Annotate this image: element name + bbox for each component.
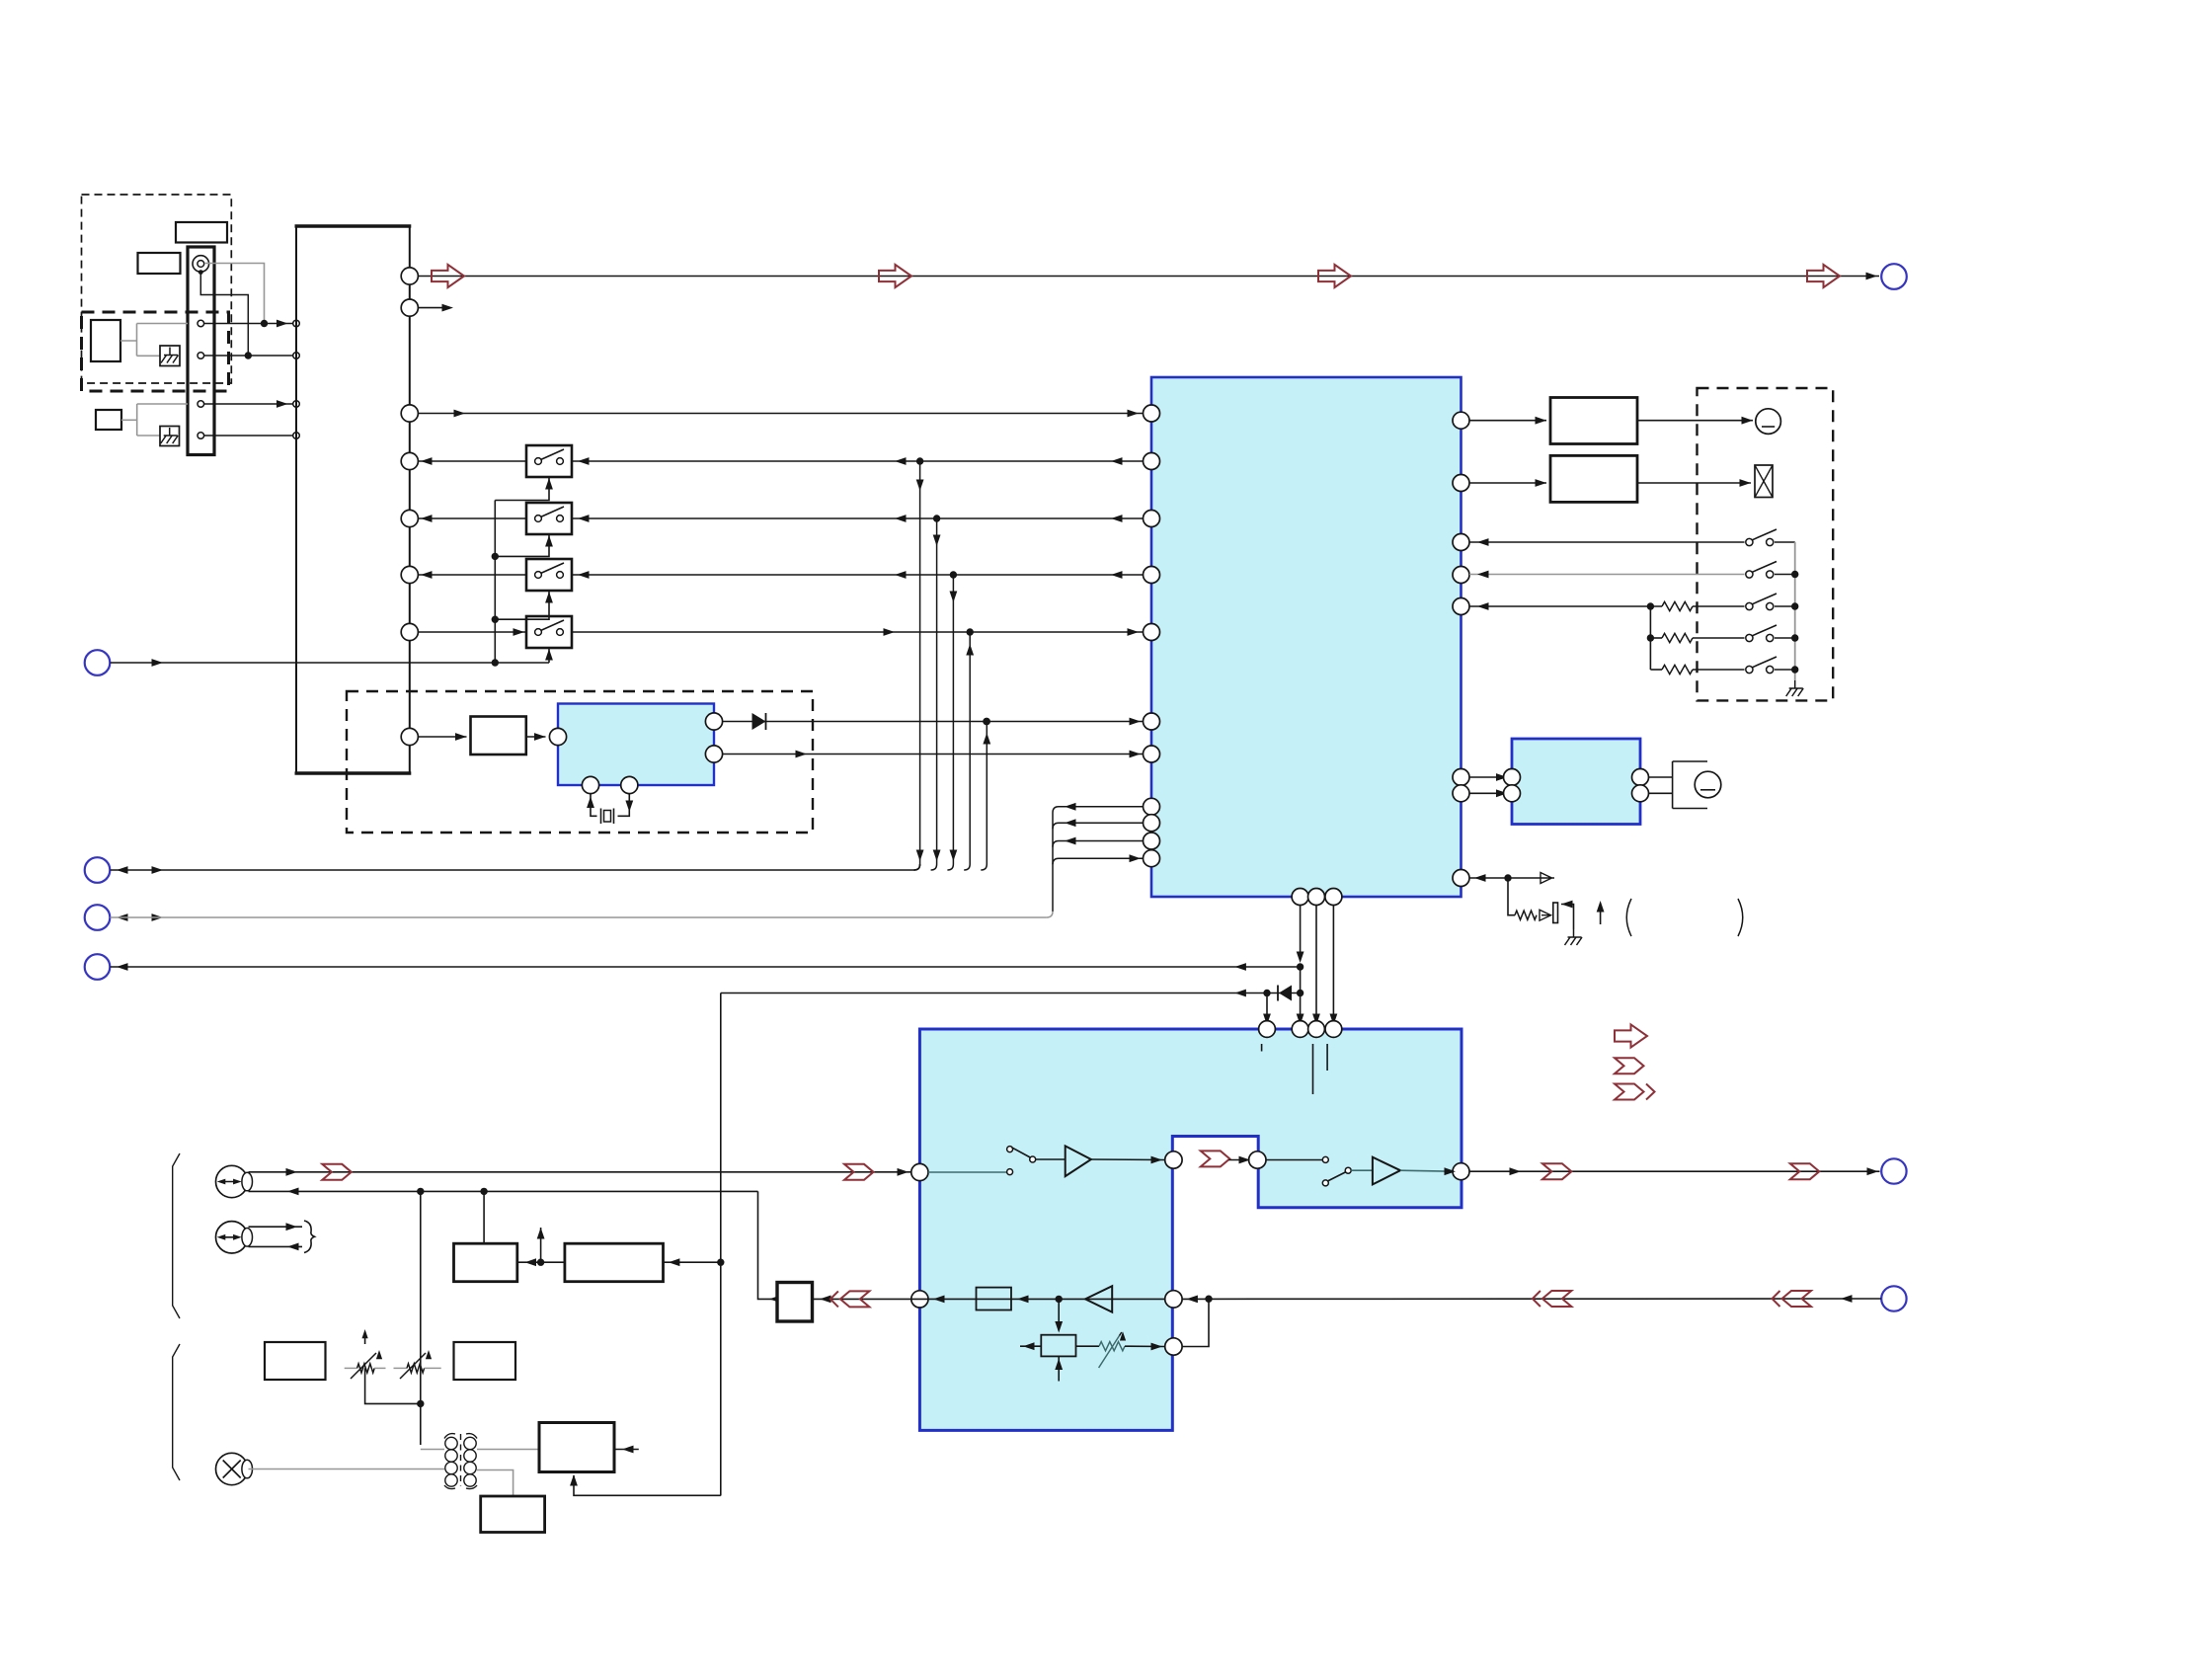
amp A1 (play amp) [1036,1158,1066,1160]
wire: H2 to H3 with tap [517,1261,565,1263]
U3 top pin T1 [1259,1021,1276,1038]
switch SW4 [526,616,572,648]
brace annotation [304,1221,315,1253]
RCA antenna jack J0 [193,256,209,273]
U3 pin rec in [1165,1291,1182,1308]
switch SW3 [526,559,572,591]
key switch S4 [1746,634,1753,641]
wire: J8 in row from relay J-box [249,1190,758,1192]
wire: J8 out row to U3 [249,1171,911,1173]
panel pin P1 [197,320,204,327]
wire: U2 out2 to IC [723,754,1144,755]
mode block H4 [265,1342,326,1380]
wire: row B3 to IC pin [418,413,1143,415]
T1 secondary top lead [477,1449,539,1451]
row S5 with resistor R3 [1650,669,1662,671]
amp A2 [1351,1169,1373,1171]
right parenthesis annotation [1738,899,1743,936]
trimmer branch with resistor R4 [1508,878,1515,915]
I2 bottom stub [1058,1356,1060,1381]
wire: U2 out1 through diode D2 to IC [723,721,1144,723]
connector J9 (mic) [216,1222,248,1253]
variable resistor VR1 [345,1367,357,1369]
connector J6 [1881,1158,1906,1183]
bus branch arrows [916,480,924,492]
bus wire from J3 with branch verticals [117,866,128,874]
main bottom vertical from J8 row [420,1191,422,1445]
driver block E1 [1550,398,1637,444]
wire: J9 rows to brace [249,1226,303,1228]
panel pin P3 [197,401,204,408]
red arrow A3 [1318,265,1351,287]
connector J10 lamp [216,1453,248,1484]
U2 pin out2 [705,746,722,762]
wire: U1 to driver E1 [1469,420,1546,422]
U1 left pins [1144,405,1160,422]
oscillator IC U2 [558,704,714,786]
SW-BLK pin B8 [401,728,418,745]
wire: U1 to S3 with resistor R1 [1469,605,1662,607]
U3 pin rec aux [1165,1338,1182,1355]
wire: row B7 through switch SW4 to IC [418,631,526,633]
red double chevron into J [840,1291,870,1307]
bias branch [1058,1299,1060,1330]
vertical feed to bottom block pin T1 [1266,993,1268,1021]
ground symbol in G1 [161,348,179,363]
function switch block SW-BLK [296,226,410,773]
red arrow A1 [432,265,464,287]
wire: panel P4 to switch block [204,435,293,437]
key switch S3 [1746,602,1753,609]
U3 pin out notch L [1165,1152,1182,1168]
U3 internal stubs [1261,1044,1263,1052]
SW-BLK pin B3 [401,405,418,422]
U1 right pins [1453,412,1469,429]
U2 pin out1 [705,713,722,730]
bus branch vertical x=982.2 [964,864,970,870]
U3 pin in2 L [911,1291,928,1308]
panel pin P4 [197,433,204,439]
power net row with diode D3 [721,993,1301,994]
SW-BLK pin B4 [401,452,418,469]
cluster wires into IC pins [1053,807,1059,813]
wire: E2 to beeper [1637,482,1751,484]
SW-BLK pin B2 [401,299,418,316]
long feed vertical to output stage [720,993,722,1496]
panel pin P2 [197,353,204,359]
wire: U1 to S1 [1469,541,1745,543]
block FM antenna lower [96,410,121,430]
arrowhead into J1 [1866,273,1878,280]
variable resistor VR2 [394,1367,408,1369]
branch to aux pin [1182,1299,1209,1346]
diode D3 [1279,986,1292,1001]
left parenthesis annotation [1626,899,1631,936]
switch SW2 [526,503,572,534]
battery bracket [1649,776,1673,778]
up arrow annotation [1600,905,1602,924]
wire amp A1 to notch pin [1091,1158,1165,1161]
connector J5 [85,954,111,980]
wire: row B5 from IC through switch SW2 [418,517,526,519]
H1 right stub [614,1449,639,1451]
U4 pin L2 [1504,785,1521,802]
U3 pin in L [911,1163,928,1180]
output stage IC U3 [919,1029,1461,1430]
key switch S5 [1746,666,1753,673]
bias osc block I2 [1041,1335,1075,1357]
gray net: AM loop to panel and ground [120,340,137,342]
red chevron J8 out near block [844,1164,874,1180]
label box ANT [176,222,227,243]
battery plug BT1 [1695,771,1721,798]
wire: row to H2 top [483,1191,485,1243]
dashed box: antenna section [82,195,232,383]
red chevron out row 2 [1790,1163,1820,1179]
wire: U1 to driver E2 [1469,482,1546,484]
wire: U1 to S2 (gray) [1469,574,1745,576]
bus branch vertical x=948.6 [931,864,937,870]
switch SW1 [526,445,572,477]
speaker element SP1 [1756,409,1781,435]
red chevron notch [1201,1151,1230,1166]
wire: jack sleeve to row2 junction [200,273,248,356]
bracket annotation upper [173,1153,180,1318]
U1 bottom pins [1292,889,1308,906]
wire: pin B2 stub [418,307,449,309]
timer block H3 [565,1243,664,1282]
SW-BLK pin B6 [401,566,418,583]
T1 secondary bottom lead [477,1470,513,1497]
wire: U1 sense pin with trimmer [1474,874,1486,882]
U4 pin L1 [1504,769,1521,786]
transformer T1 core [460,1434,462,1486]
trimmer wiper to ground [1561,901,1573,909]
ground box G2 [160,427,180,446]
bus branch vertical x=999.3 [981,864,987,870]
wire: connector J7 to U3 line-in [1881,1286,1906,1311]
EQ block I1 [977,1288,1012,1311]
counter block H2 [454,1243,517,1282]
wire J5 to IC bottom net [117,963,128,971]
wire: jack center gray to row1 junction [204,264,265,324]
variable resistor VR3 [1076,1345,1100,1347]
block AM loop [91,320,120,361]
U2 pin in [549,728,566,745]
crystal X1 circuit [591,794,597,817]
buffer block D1 [471,717,526,755]
dashed box: tuner jack section [82,312,229,391]
wire: E1 to speaker [1637,420,1753,422]
U3 top pin T2 [1292,1021,1308,1038]
row S4 with resistor R2 [1650,637,1662,639]
driver block E2 [1550,455,1637,502]
SW-BLK pin B1 [401,268,418,284]
connector J4 (gray data row) [85,905,111,930]
transformer T1 primary lead [421,1449,444,1451]
wire: top signal row to connector J1 [418,276,1879,278]
U3 top pin T3 [1308,1021,1325,1038]
wire: panel P2 to switch block [204,355,293,357]
transformer T1 primary coil [445,1437,457,1449]
switch block input pins [293,320,300,327]
tap stub up [540,1228,542,1262]
diode D2 [752,713,766,730]
connector J1 [1881,264,1907,289]
up arrow above VR1 [364,1332,366,1344]
U3 top pin T4 [1325,1021,1342,1038]
U3 line-in internal row [911,1298,1165,1300]
connector J2 (switch control) [85,650,111,675]
legend red arrow type 2 [1615,1058,1644,1073]
wire: J out to U3 in2 [813,1298,911,1300]
ground symbol in G2 [161,428,179,443]
switch common rail (gray) [1775,541,1795,543]
wire: J2 to switch commons [111,662,550,664]
relay box J [777,1283,813,1322]
ground box G1 [160,346,180,366]
red double chevron in row 1 [1782,1291,1812,1307]
trimmer plate [1553,903,1558,923]
wire: U3 out to connector J6 [1469,1170,1880,1172]
key switch S1 [1746,538,1753,545]
switch common feed net [494,501,496,664]
ground symbol key switches [1786,680,1804,696]
red double chevron in row 2 [1542,1291,1572,1307]
block H5 [454,1342,516,1380]
IC bottom pin verticals [1300,897,1302,959]
bus branch vertical x=931.6 [914,864,920,870]
SW-BLK pin B7 [401,623,418,640]
rear jack panel board [188,247,214,455]
wire: pin B8 to buffer [418,736,466,738]
red chevron out row 1 [1542,1163,1572,1179]
SW-BLK pin B5 [401,510,418,526]
I2 left stub [1020,1345,1041,1347]
dashed box: oscillator section [347,691,813,833]
audio amp IC U4 [1512,739,1640,825]
wire: U1 to audio amp U4 row1 [1469,776,1508,778]
U2 pin xtal2 [621,776,638,793]
VR1 bottom net to main vertical [365,1368,421,1403]
legend red arrow type 1 [1615,1024,1647,1047]
U3 pin out right [1453,1163,1469,1180]
wire: buffer to osc IC [526,736,546,738]
transformer T1 secondary coil [464,1437,476,1449]
gray net: lower ant to panel and ground [121,419,137,421]
rectifier block H6 [481,1496,545,1533]
main IC U1 [1151,377,1461,897]
bracket annotation lower [173,1344,180,1480]
resistor ladder vertical [1649,606,1651,670]
gray wire J4 to IC cluster [117,913,128,921]
wire: row B4 from IC through switch SW1 [418,460,526,462]
U2 pin xtal1 [582,776,598,793]
power relay H1 [539,1423,614,1472]
wire: row B6 from IC through switch SW3 [418,574,526,576]
U3 record path: switch SWA [928,1171,1007,1173]
U3 pin notch R [1249,1152,1266,1168]
legend red arrow type 3 [1615,1084,1644,1100]
wire: panel P3 to switch block [204,403,293,405]
amp A3 (rec amp, points left) [1085,1286,1112,1311]
gray wire: lamp to transformer [249,1469,445,1470]
U3 wing switch SWB [1266,1159,1322,1161]
key switch S2 [1746,571,1753,578]
red arrow A4 [1807,265,1840,287]
dashed box: key switch section [1698,388,1834,700]
wire: U1 to audio amp U4 row2 [1469,792,1508,794]
U4 pin R1 [1632,769,1649,786]
wire: panel P1 to switch block [204,323,293,325]
label box FM [138,253,181,274]
wire: H3 to feed vertical [664,1261,721,1263]
red arrow A2 [879,265,911,287]
arrow into notch R pin [1239,1156,1251,1164]
connector J8 (headphone/line) [216,1165,248,1197]
crystal X1 [600,809,602,825]
red chevron J8 out near connector [322,1164,352,1180]
connector J3 (control bus) [85,857,111,883]
U4 pin R2 [1632,785,1649,802]
bus branch vertical x=965.4 [947,864,953,870]
beeper BZ1 (crossed box) [1755,465,1773,498]
